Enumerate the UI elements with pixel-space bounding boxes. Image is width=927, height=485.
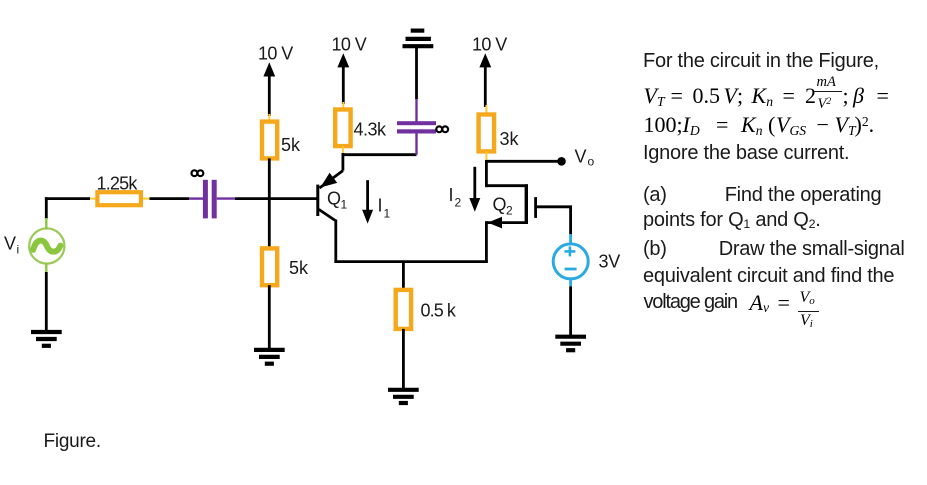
svg-text:5k: 5k [281, 135, 301, 155]
source Vi (sine source) [29, 228, 64, 263]
svg-text:Q: Q [493, 195, 507, 215]
wire drain node to Vo [486, 160, 561, 163]
wire 3V bottom lead (cyan) [569, 278, 572, 287]
wire 3V to ground [569, 286, 572, 336]
wire R2 top stub [268, 114, 270, 122]
svg-text:Q: Q [327, 189, 341, 209]
current arrow I1 [362, 180, 373, 223]
wire R6 bottom to ground [402, 329, 405, 390]
wire bottom rail (Q1 collector to Q2 source) [334, 260, 487, 263]
ground (3V source) [555, 337, 586, 351]
svg-text:1.25k: 1.25k [97, 174, 139, 194]
resistor R6 0.5k [396, 290, 411, 329]
wire R2 bottom to base node to R3 top [268, 158, 271, 248]
node Vo dot [557, 157, 566, 166]
wire Vi bottom lead [45, 263, 47, 273]
wire coupling cap left lead (purple) [189, 197, 203, 199]
ground (R6) [388, 390, 419, 403]
svg-text:2: 2 [455, 196, 462, 210]
wire R5 bottom stub [485, 151, 487, 160]
ground (Vi) [31, 332, 62, 346]
resistor R3 5k lower [262, 248, 277, 285]
resistor R1 1.25k [97, 192, 140, 205]
svg-text:1: 1 [384, 207, 391, 221]
svg-text:2: 2 [506, 204, 513, 218]
wire R1 lead stubs [90, 198, 98, 200]
wire bypass cap top lead (purple) [415, 99, 417, 122]
wire R5 top stub [485, 105, 487, 115]
wire emitter node to bypass cap [342, 153, 417, 156]
transistor Q2 drain lead [485, 160, 528, 187]
transistor Q1 collector lead [319, 209, 336, 263]
transistor Q2 channel bar [525, 184, 528, 224]
svg-text:V: V [575, 147, 587, 167]
wire base node to Q1 base [235, 197, 317, 200]
resistor R5 3k [479, 115, 495, 152]
power arrow 10V (4.3k branch) [337, 53, 349, 104]
transistor Q2 source lead with arrow [486, 217, 526, 263]
wire R4 top stub [342, 102, 344, 110]
resistor R4 4.3k [335, 110, 350, 147]
wire coupling cap right lead (purple) [217, 197, 235, 199]
current arrow I2 [469, 167, 480, 212]
wire Vi top lead [45, 197, 48, 219]
ground (top, inverted, bypass) [403, 31, 434, 47]
svg-text:3k: 3k [500, 129, 520, 149]
ground (bias divider) [254, 350, 285, 364]
svg-text:5k: 5k [289, 258, 309, 278]
wire R4 bottom stub to emitter node [342, 146, 344, 156]
power arrow 10V (bias branch) [263, 62, 275, 116]
power arrow 10V (3k branch) [479, 53, 491, 107]
figure caption [44, 431, 101, 453]
transistor Q1 base bar [316, 185, 319, 216]
problem statement text block [643, 50, 879, 73]
label infinity C2 [436, 126, 448, 132]
wire R3 bottom to ground [268, 285, 271, 348]
battery V2 3V source [553, 244, 588, 279]
svg-text:10 V: 10 V [332, 35, 367, 55]
transistor Q1 emitter lead [320, 153, 343, 188]
svg-text:10 V: 10 V [258, 43, 293, 63]
wire top ground to bypass cap (black) [415, 48, 418, 99]
wire Q2 gate to 3V source [537, 205, 571, 234]
svg-text:3V: 3V [599, 252, 621, 272]
wire bypass cap bottom lead (purple) [415, 133, 417, 155]
capacitor C1 coupling (infinite) [203, 180, 217, 219]
svg-text:I: I [449, 185, 454, 205]
wire input node to R1 [45, 197, 90, 200]
label infinity C1 [192, 170, 204, 176]
wire rail to R6 [402, 262, 405, 291]
resistor R2 5k upper [262, 122, 277, 159]
svg-text:I: I [378, 196, 383, 216]
wire R1 to coupling cap [150, 197, 190, 200]
svg-text:1: 1 [341, 198, 348, 212]
svg-text:4.3k: 4.3k [354, 120, 388, 140]
svg-text:0.5 k: 0.5 k [421, 300, 457, 320]
transistor Q2 gate bar [534, 197, 537, 218]
svg-text:V: V [4, 234, 16, 254]
svg-text:i: i [17, 243, 20, 257]
capacitor C2 bypass (infinite) [397, 121, 436, 133]
wire 3V top lead (cyan) [569, 234, 572, 245]
svg-text:10 V: 10 V [472, 35, 507, 55]
svg-text:o: o [588, 155, 595, 169]
